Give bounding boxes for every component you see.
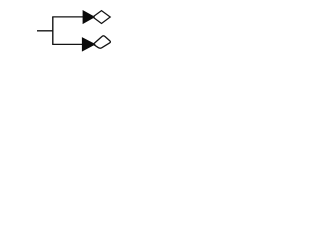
- output port symbol (top diamond): [93, 11, 110, 24]
- output port symbol (bottom rounded diamond): [93, 36, 110, 48]
- wire: top branch to buffer: [52, 16, 83, 18]
- wire: fanout vertical bus: [52, 17, 54, 45]
- wire: input segment: [37, 30, 53, 32]
- buffer U1 (top, filled triangle): [83, 11, 94, 24]
- buffer U2 (bottom, filled triangle): [82, 38, 95, 51]
- wire: bottom branch to buffer: [52, 43, 83, 45]
